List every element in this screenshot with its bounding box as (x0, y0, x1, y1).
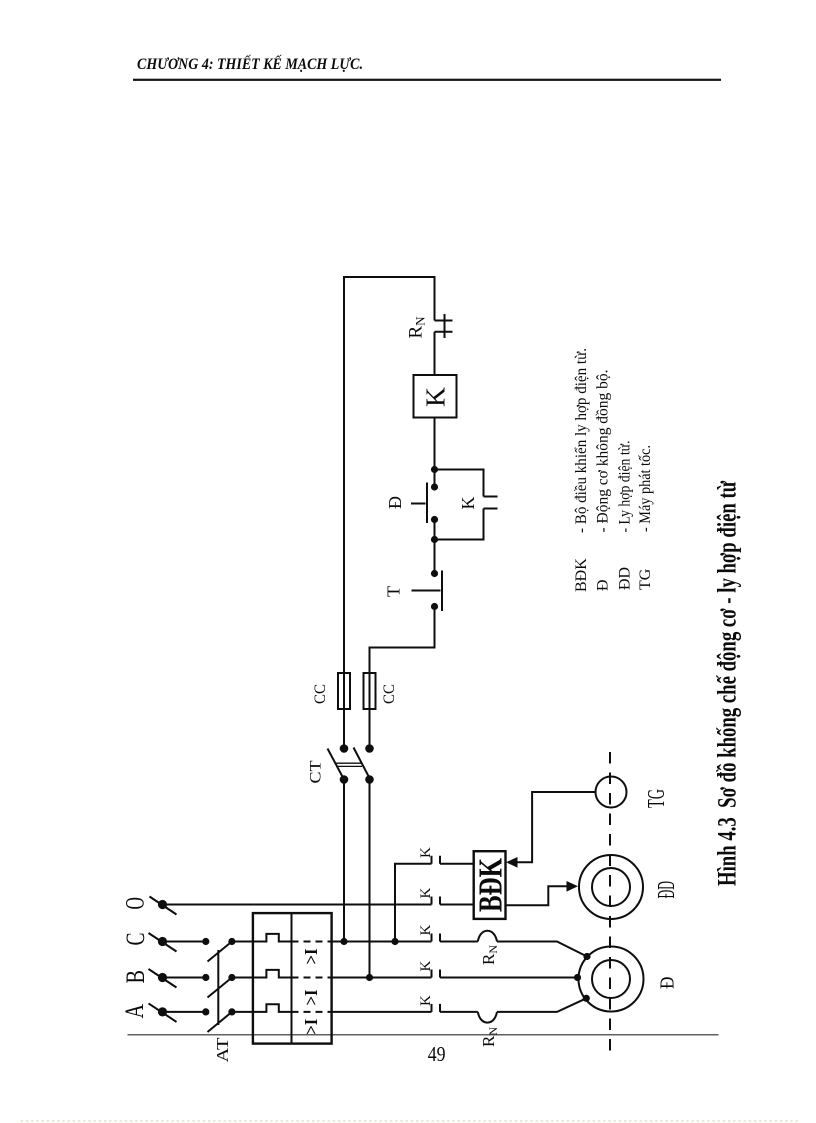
box BDK (474, 851, 506, 919)
svg-text:K: K (418, 847, 434, 858)
svg-text:BĐK: BĐK (473, 858, 510, 912)
wire T to fuse CC2 (jog left) (370, 607, 435, 749)
phase A terminal (149, 1003, 177, 1022)
breaker AT blade phase A (208, 1012, 232, 1032)
contact K (self-hold) branch wires (435, 470, 498, 540)
pushbutton D (start) fixed contacts (431, 483, 438, 490)
svg-text:>I: >I (301, 1019, 321, 1035)
svg-text:>I: >I (301, 990, 321, 1006)
svg-text:ĐD- Ly hợp điện từ.: ĐD- Ly hợp điện từ. (617, 441, 634, 591)
wire phase B to AT (163, 977, 206, 979)
heater RN phase C (bump) (478, 931, 497, 942)
pushbutton T actuator stem (412, 590, 441, 592)
wire CT right pole to phase B row (369, 780, 371, 978)
wire AT to overload box phase C (232, 941, 253, 943)
contact K5 (phase A to motor) (432, 1004, 478, 1012)
arrowhead into DD (567, 881, 579, 892)
heater RN phase A (bump down) (478, 1012, 497, 1023)
motor D inner (592, 960, 630, 998)
trip element dashed phase C (292, 941, 332, 943)
svg-text:>I: >I (301, 949, 321, 965)
node: CT left pole taps phase C (340, 938, 347, 945)
svg-text:K: K (458, 497, 478, 510)
wire RN to coil K (434, 332, 436, 375)
wire phase A to AT (163, 1011, 206, 1013)
pushbutton T moving bar (441, 571, 443, 612)
wire phase O row (163, 904, 432, 906)
fuse CC1 (338, 673, 350, 709)
overload box divider (291, 913, 293, 1044)
overload relay box (253, 913, 332, 1044)
wire BDK to clutch DD (506, 886, 567, 905)
contact K3 (phase C to motor) (432, 934, 478, 942)
phase O terminal (150, 897, 177, 915)
svg-text:B: B (121, 970, 150, 984)
wire phase A to motor D (497, 998, 586, 1012)
trip element dashed phase B (292, 977, 332, 979)
phase B terminal (149, 969, 177, 988)
node J2 junction dot (431, 536, 438, 543)
bottom dotted scan line (20, 1120, 800, 1122)
pushbutton D actuator stem (411, 503, 426, 505)
heater element phase A (253, 1004, 292, 1012)
svg-text:AT: AT (213, 1037, 232, 1063)
svg-text:CHƯƠNG 4: THIẾT KẾ MẠCH LỰC.: CHƯƠNG 4: THIẾT KẾ MẠCH LỰC. (137, 54, 363, 73)
wire TG to BDK (516, 792, 596, 862)
wire phase C to AT (163, 941, 206, 943)
node: BDK feed taps phase C (391, 938, 398, 945)
svg-text:K: K (418, 995, 434, 1006)
node J1 junction dot (431, 466, 438, 473)
svg-text:ĐD: ĐD (654, 881, 680, 899)
wire AT to overload box phase B (232, 977, 253, 979)
motor D outer (579, 947, 644, 1012)
wire AT to overload box phase A (232, 1011, 253, 1013)
breaker AT blade phase C (208, 942, 232, 962)
svg-text:Đ: Đ (657, 977, 679, 990)
wire right vertical down to RN contact (434, 276, 436, 321)
heater element phase B (253, 970, 292, 978)
wire CT left pole to phase C row (343, 780, 345, 942)
wire left vertical (phase C feed to fuse CC1) (343, 276, 345, 749)
wire D-button to node J2 (434, 520, 436, 574)
wire phase C to motor D (497, 942, 587, 957)
contact K4 (phase B to motor) (432, 970, 578, 978)
heater element phase C (253, 934, 292, 942)
svg-text:T: T (384, 586, 404, 597)
breaker AT blade phase B (208, 978, 232, 998)
phase C terminal (149, 933, 177, 952)
wire phase A row after box (332, 1011, 432, 1013)
contact K2 (phase O to BDK) (432, 897, 474, 905)
svg-text:CC: CC (312, 684, 329, 704)
wire BDK feed riser (395, 864, 432, 942)
header rule (133, 79, 721, 81)
svg-text:K: K (418, 961, 434, 972)
wire coil K to node J1 (434, 418, 436, 488)
svg-text:K: K (418, 925, 434, 936)
tacho TG circle (596, 777, 627, 808)
contact RN (normally-closed, thermal relay) (435, 314, 453, 338)
pushbutton D moving bar (426, 483, 428, 524)
coil K (contactor coil box) (414, 375, 457, 418)
breaker AT link bar (217, 950, 219, 1025)
pushbutton T (stop) fixed contacts (431, 570, 438, 577)
svg-text:O: O (121, 897, 150, 910)
svg-text:C: C (121, 933, 150, 946)
clutch DD inner (592, 868, 630, 906)
footer rule (128, 1034, 719, 1035)
node: CT right pole taps phase B (366, 974, 373, 981)
wire top horizontal (344, 276, 435, 278)
wire phase C row after box (332, 941, 432, 943)
svg-text:K: K (421, 386, 451, 407)
shaft axis dashed (609, 752, 611, 1058)
svg-text:Đ: Đ (385, 496, 405, 509)
fuse CC2 (364, 673, 376, 709)
arrowhead into BDK (506, 857, 518, 868)
contact K1 (BDK feed) (432, 856, 474, 864)
wire phase B row after box (332, 977, 432, 979)
trip element dashed phase A (292, 1011, 332, 1013)
svg-text:TG: TG (644, 789, 670, 808)
svg-text:A: A (120, 1004, 149, 1019)
switch CT (double-pole) (328, 744, 374, 784)
svg-text:CT: CT (308, 760, 325, 783)
node phase B at motor D (574, 974, 581, 981)
svg-text:Hình 4.3 Sơ đồ khống chế động: Hình 4.3 Sơ đồ khống chế động cơ - ly hợ… (713, 481, 742, 886)
clutch DD outer (579, 855, 643, 919)
svg-text:49: 49 (428, 1042, 446, 1066)
svg-text:CC: CC (381, 684, 398, 704)
svg-text:K: K (418, 888, 434, 899)
